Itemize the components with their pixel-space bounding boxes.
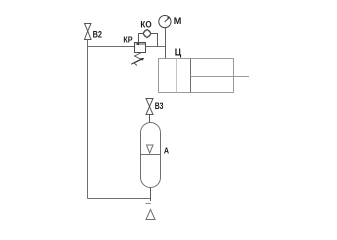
wire: vertical from B2 down left side	[87, 40, 89, 199]
wire: horizontal B2 branch to KP valve	[88, 46, 135, 48]
adjustment arrow through spring	[131, 59, 142, 65]
cylinder body	[159, 59, 234, 93]
manometer M	[159, 16, 171, 28]
svg-text:В2: В2	[93, 30, 102, 41]
wire: B3 to accumulator	[149, 115, 151, 124]
svg-text:В3: В3	[155, 101, 164, 112]
wire: bottom horizontal return line	[88, 198, 151, 200]
valve B3	[146, 99, 153, 115]
piston rod	[191, 76, 250, 78]
valve B2	[85, 24, 92, 40]
pump/tank triangle at bottom	[146, 210, 155, 220]
wire: manometer down to cylinder	[165, 28, 167, 59]
accumulator A (capsule)	[141, 123, 161, 188]
reducing valve KP (square with arrow)	[135, 43, 146, 53]
svg-text:КР: КР	[123, 35, 132, 45]
wire: from KO to junction	[151, 34, 157, 47]
wire: KP output to cylinder riser	[146, 46, 167, 48]
svg-text:А: А	[164, 146, 169, 155]
svg-text:КО: КО	[140, 20, 151, 30]
check valve KO (diamond with circle)	[143, 29, 151, 37]
wire: riser from KP top to check valve bypass	[139, 34, 143, 43]
spring under KP valve	[134, 52, 142, 66]
svg-text:М: М	[174, 16, 182, 26]
svg-text:Ц: Ц	[175, 47, 182, 59]
wire: short dash below stem	[146, 203, 151, 205]
wire: accumulator bottom stem	[150, 188, 152, 202]
piston	[190, 59, 192, 93]
piston left face	[176, 59, 178, 93]
